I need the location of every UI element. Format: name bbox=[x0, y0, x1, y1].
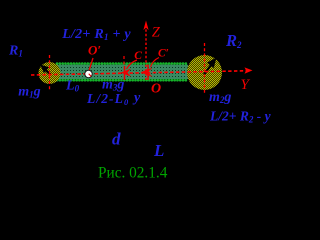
node C marker on rod bbox=[124, 66, 126, 80]
leader from C' label bbox=[151, 58, 160, 68]
svg-text:L: L bbox=[153, 141, 164, 160]
node Y axis arrowhead bbox=[245, 67, 253, 73]
wire: short dashed above C bbox=[123, 56, 125, 66]
node O' pivot circle bbox=[89, 58, 93, 71]
svg-text:d: d bbox=[112, 130, 121, 149]
svg-text:L/2+ R2 - y: L/2+ R2 - y bbox=[209, 109, 272, 125]
wire: Z axis dashed line bbox=[145, 25, 147, 80]
wire: Y axis dashed line bbox=[31, 71, 246, 75]
svg-text:O: O bbox=[151, 81, 161, 96]
svg-text:y: y bbox=[132, 91, 141, 106]
svg-text:C′: C′ bbox=[158, 47, 169, 59]
svg-text:Z: Z bbox=[152, 25, 161, 41]
wire: vertical dashed through left ball bbox=[49, 55, 51, 91]
arrow R2 inside right ball bbox=[204, 65, 211, 75]
rod bottom bumpy edge bbox=[57, 79, 188, 82]
svg-text:L/2-L0: L/2-L0 bbox=[86, 91, 129, 107]
svg-text:O′: O′ bbox=[88, 43, 101, 58]
svg-text:Рис. 02.1.4: Рис. 02.1.4 bbox=[98, 164, 168, 181]
ball m2 (right, radius R2) bbox=[187, 55, 222, 90]
node Z axis arrowhead bbox=[143, 21, 148, 31]
rod m3 (green hatched bar) bbox=[56, 65, 188, 80]
arrow R1 inside left ball bbox=[45, 70, 51, 75]
node C' marker on rod bbox=[147, 65, 149, 81]
ball m1 (left, radius R1) bbox=[39, 62, 61, 84]
svg-text:L/2+ R1 + y: L/2+ R1 + y bbox=[61, 27, 131, 42]
leader from C label bbox=[127, 60, 138, 69]
svg-text:C: C bbox=[134, 50, 142, 62]
wire: vertical dashed through right ball bbox=[204, 43, 206, 93]
rod top bumpy edge bbox=[57, 62, 188, 65]
